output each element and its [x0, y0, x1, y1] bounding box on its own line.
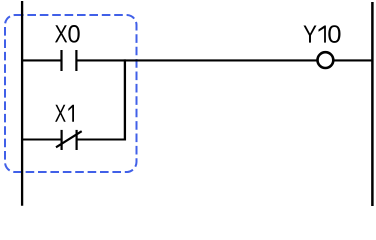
wire: contact X0 to coil Y10	[76, 59, 318, 61]
wire: contact X1 to branch vertical	[76, 138, 126, 140]
contact X1 (normally closed) right bar	[75, 130, 77, 150]
wire: left rail to contact X1	[21, 138, 62, 140]
contact X1 (normally closed) left bar	[60, 130, 62, 150]
label Y10	[304, 25, 341, 43]
wire: left rail to contact X0	[21, 59, 62, 61]
contact X1 slash (normally closed marker)	[56, 131, 82, 147]
label X1	[55, 105, 74, 122]
contact X0 (normally open) right bar	[75, 50, 77, 71]
wire: coil Y10 to right rail	[334, 59, 374, 61]
selection box (dashed blue rounded rectangle)	[5, 15, 137, 172]
wire: branch vertical joining X1 rung to main rung	[124, 59, 126, 140]
coil Y10 (output circle)	[318, 52, 334, 68]
contact X0 (normally open) left bar	[60, 50, 62, 71]
left power rail	[21, 1, 23, 206]
right power rail	[371, 2, 374, 206]
label X0	[55, 25, 80, 43]
